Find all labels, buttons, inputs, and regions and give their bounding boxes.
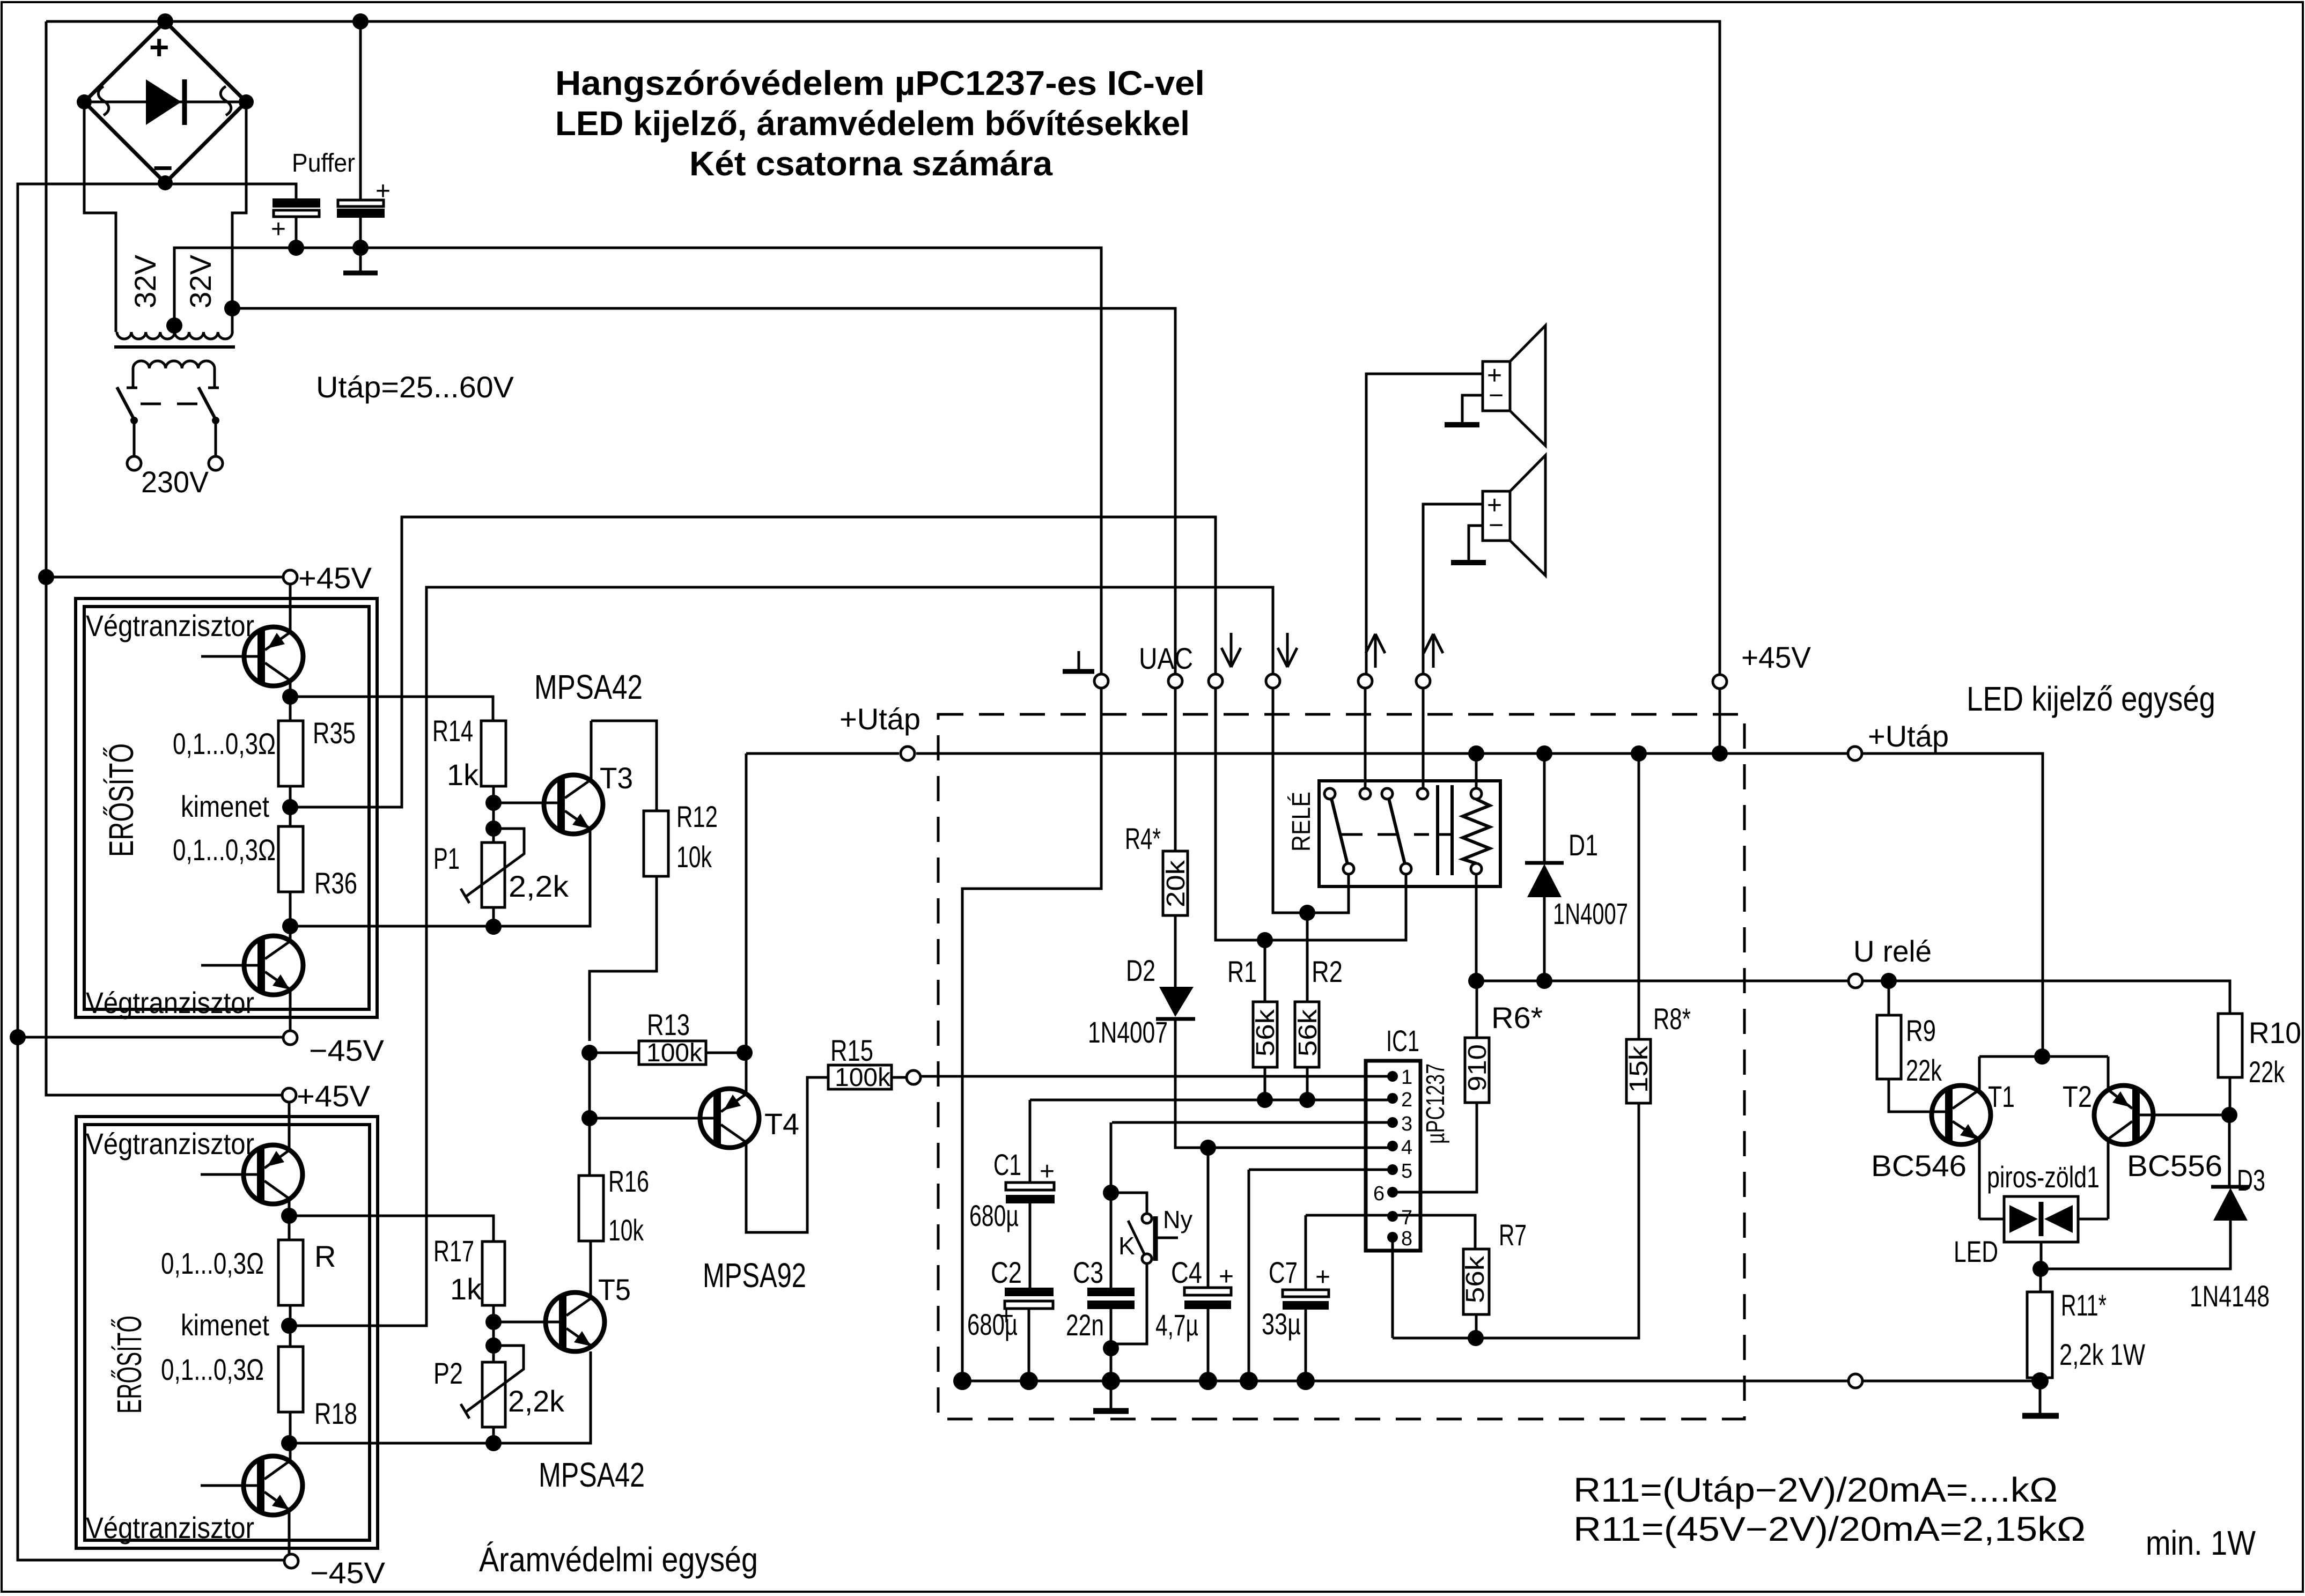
svg-text:R8*: R8* xyxy=(1653,1002,1691,1036)
svg-text:+Utáp: +Utáp xyxy=(1868,719,1949,753)
svg-text:D1: D1 xyxy=(1568,828,1598,862)
svg-text:R4*: R4* xyxy=(1125,822,1161,855)
svg-text:56k: 56k xyxy=(1294,1009,1322,1056)
node R2 bottom xyxy=(1299,1092,1315,1108)
node kimenet upper xyxy=(282,799,298,815)
svg-text:1k: 1k xyxy=(447,758,479,792)
wire spk2 terminal to relay xyxy=(1422,688,1425,789)
svg-text:56k: 56k xyxy=(1251,1009,1280,1056)
svg-text:R9: R9 xyxy=(1906,1014,1936,1047)
wire R36 to lower node xyxy=(289,892,292,941)
wire R18 to lower node xyxy=(289,1412,292,1461)
terminal out1 xyxy=(1209,674,1223,688)
wire R16 to T5 collector xyxy=(590,1241,592,1298)
node U rele D1 xyxy=(1536,973,1552,989)
wire R14 bottom / base T3 xyxy=(492,786,495,843)
resistor R13 xyxy=(590,1039,745,1067)
resistor R15 xyxy=(828,1063,907,1092)
svg-text:R36: R36 xyxy=(314,866,357,900)
bridge rectifier B1 xyxy=(77,21,254,190)
svg-text:4,7µ: 4,7µ xyxy=(1155,1308,1198,1342)
wire R to kimenet lower xyxy=(289,1305,292,1347)
wire R13 node down to T4 base xyxy=(588,1053,591,1176)
diode D1 xyxy=(1525,753,1564,981)
svg-text:8: 8 xyxy=(1401,1228,1412,1250)
svg-text:Puffer: Puffer xyxy=(292,149,355,178)
svg-text:R15: R15 xyxy=(830,1033,873,1067)
svg-text:100k: 100k xyxy=(646,1039,703,1067)
svg-text:R7: R7 xyxy=(1499,1218,1527,1252)
transistor Vegtranzisztor lower-bottom (NPN) xyxy=(201,1456,303,1515)
svg-text:T5: T5 xyxy=(598,1273,631,1306)
svg-text:R14: R14 xyxy=(432,714,473,748)
svg-text:0,1...0,3Ω: 0,1...0,3Ω xyxy=(161,1246,264,1280)
resistor R1 xyxy=(1251,940,1280,1100)
node R13 right xyxy=(737,1045,753,1061)
node utap D1 xyxy=(1536,745,1552,762)
pin2 wire xyxy=(1030,1099,1393,1102)
pin1 wire xyxy=(920,1075,1393,1078)
terminal +Utap left xyxy=(901,747,915,760)
svg-text:Végtranzisztor: Végtranzisztor xyxy=(86,609,254,642)
svg-text:7: 7 xyxy=(1401,1207,1412,1229)
terminal out2 xyxy=(1266,674,1280,688)
node rail C4 xyxy=(1199,1372,1217,1390)
transistor T3 xyxy=(544,775,603,834)
wire ground bus from caps xyxy=(174,248,1101,674)
diode D3 xyxy=(2041,1115,2250,1269)
wire +45V terminal to rail xyxy=(1719,689,1721,753)
resistor R (lower amp) xyxy=(278,1240,303,1305)
svg-text:R6*: R6* xyxy=(1491,1001,1543,1035)
wire left +45V feeder xyxy=(46,21,282,1095)
pin5 wire xyxy=(1249,1169,1393,1171)
pin3 wire xyxy=(1112,1121,1393,1124)
svg-text:100k: 100k xyxy=(835,1063,891,1092)
svg-text:Utáp=25...60V: Utáp=25...60V xyxy=(316,370,514,404)
svg-text:+: + xyxy=(1040,1157,1055,1186)
node emitter lower-top xyxy=(281,1208,297,1224)
svg-text:4: 4 xyxy=(1401,1136,1412,1159)
svg-text:P2: P2 xyxy=(433,1356,463,1390)
wire spk2 plus xyxy=(1423,504,1483,674)
resistor R36 xyxy=(278,826,303,892)
svg-text:ERŐSÍTŐ: ERŐSÍTŐ xyxy=(102,743,141,857)
svg-text:R10: R10 xyxy=(2249,1016,2301,1050)
resistor R6 xyxy=(1393,981,1492,1192)
pushbutton Ny/K xyxy=(1111,1193,1178,1344)
node +45V upper xyxy=(38,569,54,585)
svg-text:1k: 1k xyxy=(450,1272,482,1306)
node R11 gnd xyxy=(2031,1372,2049,1390)
wire upper emitter to R14 xyxy=(290,697,493,721)
capacitor C1 xyxy=(1006,1100,1055,1288)
node utap relay coil xyxy=(1468,745,1484,762)
resistor R9 xyxy=(1877,981,1945,1112)
svg-text:5: 5 xyxy=(1401,1160,1412,1183)
node R13 left xyxy=(581,1045,598,1061)
node switch top xyxy=(1103,1185,1119,1201)
trimmer P2 xyxy=(461,1346,524,1443)
node P2 wiper tap xyxy=(485,1338,502,1354)
node cap a gnd xyxy=(288,240,304,256)
svg-text:1N4007: 1N4007 xyxy=(1553,897,1628,930)
wire upper bottom rail to T3 emitter xyxy=(290,829,590,926)
svg-text:6: 6 xyxy=(1373,1183,1385,1205)
resistor R7 xyxy=(1306,1215,1490,1338)
node T4 base xyxy=(581,1110,598,1126)
transistor T2 (PNP BC556, mirrored) xyxy=(2094,1056,2229,1219)
node R7 bottom xyxy=(1468,1330,1484,1346)
node rail C1C2 xyxy=(953,1372,971,1390)
wire spk1 plus xyxy=(1366,374,1483,674)
svg-text:MPSA42: MPSA42 xyxy=(534,668,643,706)
arrow up 2 xyxy=(1424,634,1443,668)
IC1 uPC1237 xyxy=(1366,1024,1450,1251)
node emitter lower-bottom xyxy=(281,1435,297,1451)
ground right xyxy=(2039,1381,2042,1414)
resistor R17 xyxy=(482,1242,505,1305)
svg-text:32V: 32V xyxy=(128,254,162,308)
resistor R12 xyxy=(644,811,668,876)
switch mains pole1 xyxy=(117,387,141,470)
wire out2 to relay/R2 row xyxy=(1273,688,1349,913)
wire collector bus xyxy=(1979,1055,2108,1058)
svg-text:Áramvédelmi egység: Áramvédelmi egység xyxy=(479,1540,758,1579)
terminal spk2 xyxy=(1416,674,1430,688)
wire lower emitter to R17 xyxy=(289,1216,494,1242)
node T1T2 collector xyxy=(2034,1048,2050,1065)
wire R35 to kimenet xyxy=(289,786,292,826)
svg-text:1N4007: 1N4007 xyxy=(1088,1015,1168,1049)
svg-text:R35: R35 xyxy=(313,716,356,750)
resistor R10 xyxy=(2218,981,2242,1115)
svg-text:C1: C1 xyxy=(993,1148,1021,1181)
svg-text:0,1...0,3Ω: 0,1...0,3Ω xyxy=(173,727,276,760)
wire to -45V upper xyxy=(289,989,292,1031)
node R1 bottom xyxy=(1257,1092,1273,1108)
node P1 bottom xyxy=(485,919,502,935)
svg-text:LED: LED xyxy=(1954,1235,1998,1268)
svg-text:Végtranzisztor: Végtranzisztor xyxy=(86,1127,254,1161)
wire spk1 minus to gnd xyxy=(1462,395,1483,423)
wire bridge AC right to transformer xyxy=(232,102,246,332)
speaker SP2 xyxy=(1483,455,1545,575)
relay K1 xyxy=(1287,781,1500,886)
svg-text:LED kijelző, áramvédelem bővít: LED kijelző, áramvédelem bővítésekkel xyxy=(555,104,1190,143)
pin6 wire xyxy=(1393,1191,1477,1194)
wire gnd terminal down-left to rail xyxy=(962,688,1101,1381)
terminal gnd xyxy=(1094,674,1108,688)
svg-text:MPSA42: MPSA42 xyxy=(539,1455,645,1494)
terminal UAC xyxy=(1168,674,1182,688)
svg-text:U relé: U relé xyxy=(1853,934,1932,968)
wire spk1 terminal to relay xyxy=(1364,688,1367,789)
wire upper kimenet to out1 xyxy=(290,517,1216,807)
transistor T1 (NPN BC546) xyxy=(1932,1056,1991,1219)
amp box upper xyxy=(76,598,377,1017)
node kimenet lower xyxy=(281,1318,297,1334)
resistor R16 xyxy=(579,1176,603,1241)
node U rele R9 xyxy=(1881,973,1897,989)
transistor T4 (PNP) xyxy=(700,1089,759,1148)
svg-text:−: − xyxy=(1489,511,1504,540)
resistor R4 xyxy=(1162,688,1190,987)
node R14-T3 base xyxy=(485,795,502,811)
svg-text:3: 3 xyxy=(1401,1113,1412,1135)
wire +45V to Q-upper-top xyxy=(289,584,292,632)
svg-text:P1: P1 xyxy=(433,841,460,875)
svg-text:LED kijelző egység: LED kijelző egység xyxy=(1967,679,2215,718)
svg-text:UAC: UAC xyxy=(1139,641,1193,675)
svg-text:−45V: −45V xyxy=(310,1556,386,1590)
resistor R18 xyxy=(278,1347,303,1412)
ground rail bottom xyxy=(962,1380,2040,1383)
svg-text:+45V: +45V xyxy=(1741,640,1811,674)
capacitor Puffer C-a xyxy=(271,198,320,248)
svg-text:+: + xyxy=(375,177,391,205)
svg-text:min. 1W: min. 1W xyxy=(2146,1524,2256,1562)
svg-text:R18: R18 xyxy=(314,1396,357,1430)
svg-text:20k: 20k xyxy=(1162,860,1190,907)
svg-text:Végtranzisztor: Végtranzisztor xyxy=(86,986,254,1019)
svg-text:−45V: −45V xyxy=(309,1033,385,1067)
svg-text:ERŐSÍTŐ: ERŐSÍTŐ xyxy=(110,1316,149,1414)
node rail C3 xyxy=(1102,1372,1120,1390)
svg-text:15k: 15k xyxy=(1625,1045,1653,1093)
svg-text:R12: R12 xyxy=(676,800,718,833)
node transformer right xyxy=(224,300,240,316)
svg-text:kimenet: kimenet xyxy=(181,1308,269,1342)
node rail pin5 xyxy=(1240,1372,1258,1390)
svg-text:680µ: 680µ xyxy=(969,1199,1019,1232)
svg-text:C4: C4 xyxy=(1171,1255,1202,1289)
wire T4 collector up to +Utap xyxy=(745,753,748,1094)
svg-text:T1: T1 xyxy=(1988,1080,2015,1113)
svg-text:+45V: +45V xyxy=(298,561,372,595)
resistor R35 xyxy=(278,721,303,786)
terminal -45V upper xyxy=(283,1031,297,1045)
svg-text:680µ: 680µ xyxy=(967,1307,1018,1341)
pin7 wire (to C7) xyxy=(1305,1215,1307,1290)
node R1 top xyxy=(1257,932,1273,948)
transformer TR secondary xyxy=(117,317,232,339)
svg-text:32V: 32V xyxy=(183,254,217,308)
svg-text:33µ: 33µ xyxy=(1262,1307,1301,1341)
pin8 wire xyxy=(1391,1237,1394,1338)
svg-text:0,1...0,3Ω: 0,1...0,3Ω xyxy=(173,833,276,867)
svg-text:Hangszóróvédelem µPC1237-es IC: Hangszóróvédelem µPC1237-es IC-vel xyxy=(555,64,1205,102)
wire relay coil to +Utap xyxy=(1475,753,1478,788)
wire to upper amp -45V xyxy=(18,1036,283,1039)
node utap R8 xyxy=(1631,745,1647,762)
svg-text:+: + xyxy=(271,215,286,243)
node T2 base / R10 xyxy=(2221,1107,2237,1123)
wire emitter node lower xyxy=(288,1199,291,1240)
resistor R2 xyxy=(1294,913,1322,1100)
svg-text:µPC1237: µPC1237 xyxy=(1422,1063,1450,1144)
node rail C7 xyxy=(1297,1372,1315,1390)
svg-text:Ny: Ny xyxy=(1163,1206,1192,1233)
svg-text:R16: R16 xyxy=(608,1164,649,1198)
transformer core xyxy=(114,345,235,349)
svg-text:RELÉ: RELÉ xyxy=(1287,792,1316,852)
wire R17 bottom / base T5 xyxy=(492,1305,495,1362)
svg-text:2: 2 xyxy=(1401,1089,1412,1111)
terminal +45V lower xyxy=(282,1088,296,1102)
wire emitter node upper xyxy=(289,681,292,721)
arrow down 2 xyxy=(1278,633,1297,667)
node top rail cap2 xyxy=(352,13,369,29)
ground symbol in box xyxy=(1110,1381,1113,1409)
transistor Vegtranzisztor upper-top (PNP) xyxy=(201,627,303,686)
wire to -45V lower xyxy=(288,1510,291,1554)
amp box lower xyxy=(76,1117,378,1548)
node R2 top xyxy=(1299,905,1315,921)
terminal gnd right xyxy=(1849,1374,1862,1388)
svg-text:0,1...0,3Ω: 0,1...0,3Ω xyxy=(161,1353,264,1386)
wire to upper amp +45V xyxy=(46,576,283,579)
svg-text:R11*: R11* xyxy=(2061,1288,2107,1322)
capacitor C2 xyxy=(999,1288,1054,1381)
ground spk1 xyxy=(1445,422,1479,427)
svg-text:+45V: +45V xyxy=(297,1079,371,1113)
svg-text:T3: T3 xyxy=(600,761,633,795)
svg-text:T2: T2 xyxy=(2063,1080,2092,1113)
svg-text:R13: R13 xyxy=(647,1008,690,1041)
svg-text:2,2k: 2,2k xyxy=(508,1384,565,1418)
svg-text:D2: D2 xyxy=(1126,954,1155,987)
wire UAC sense from transformer xyxy=(232,308,1175,674)
svg-text:22k: 22k xyxy=(2249,1055,2285,1089)
svg-text:R2: R2 xyxy=(1312,955,1343,988)
transistor T5 xyxy=(546,1292,605,1351)
node C4 top xyxy=(1200,1140,1216,1156)
svg-text:10k: 10k xyxy=(608,1213,644,1247)
wire out1 to relay/R1 row xyxy=(1216,688,1406,940)
svg-text:+: + xyxy=(1315,1263,1330,1291)
ground terminal symbol xyxy=(1063,651,1094,671)
svg-text:1N4148: 1N4148 xyxy=(2190,1279,2270,1313)
svg-text:56k: 56k xyxy=(1461,1255,1490,1303)
svg-text:R11=(45V−2V)/20mA=2,15kΩ: R11=(45V−2V)/20mA=2,15kΩ xyxy=(1573,1510,2086,1548)
transistor Vegtranzisztor upper-bottom (NPN) xyxy=(201,936,303,995)
capacitor C7 xyxy=(1283,1263,1330,1381)
svg-text:R: R xyxy=(314,1239,336,1273)
terminal -45V lower xyxy=(284,1554,298,1568)
svg-text:−: − xyxy=(1489,381,1504,410)
svg-text:MPSA92: MPSA92 xyxy=(703,1256,806,1295)
node U rele coil xyxy=(1468,973,1484,989)
svg-text:R17: R17 xyxy=(433,1234,474,1268)
terminal U rele xyxy=(1849,974,1862,988)
svg-text:10k: 10k xyxy=(676,840,712,874)
svg-text:D3: D3 xyxy=(2237,1163,2265,1197)
node top rail bridge xyxy=(157,13,173,29)
svg-text:C3: C3 xyxy=(1073,1255,1103,1289)
wire top +45V rail xyxy=(46,21,1720,675)
dashed protection box xyxy=(938,714,1744,1419)
node -45V upper xyxy=(10,1029,26,1045)
wire +45V to Q-lower-top xyxy=(288,1102,291,1150)
terminal +45V right xyxy=(1713,675,1727,689)
svg-text:+: + xyxy=(149,28,169,66)
svg-text:1: 1 xyxy=(1401,1066,1412,1089)
node P2 bottom xyxy=(485,1435,502,1451)
svg-text:BC546: BC546 xyxy=(1871,1149,1967,1183)
title text xyxy=(555,64,1205,183)
node cap b gnd xyxy=(352,240,369,256)
wire lower kimenet to out2 xyxy=(289,587,1273,1326)
wire bridge AC left to transformer xyxy=(84,102,116,332)
ground at cap b xyxy=(359,248,362,271)
node utap +45V xyxy=(1712,745,1728,762)
node emitter upper-bottom xyxy=(282,918,298,934)
svg-text:Két csatorna számára: Két csatorna számára xyxy=(689,144,1052,183)
svg-text:K: K xyxy=(1118,1232,1135,1260)
capacitor C4 xyxy=(1184,1148,1234,1381)
resistor R11 xyxy=(2027,1269,2052,1381)
wire relay coil to U rele rail xyxy=(1475,874,1478,981)
svg-text:R1: R1 xyxy=(1227,955,1257,988)
wire T3 collector to R14 top rail xyxy=(591,721,657,811)
svg-text:910: 910 xyxy=(1463,1044,1492,1091)
svg-text:BC556: BC556 xyxy=(2127,1149,2222,1183)
arrow up 1 xyxy=(1366,634,1385,668)
capacitor C3 xyxy=(1087,1122,1135,1381)
svg-text:+: + xyxy=(1219,1262,1234,1291)
terminal spk1 xyxy=(1358,674,1372,688)
node R17-T5 base xyxy=(485,1314,502,1330)
trimmer P1 xyxy=(461,829,524,927)
arrow down 1 xyxy=(1221,633,1241,667)
svg-text:IC1: IC1 xyxy=(1386,1024,1419,1058)
terminal +45V upper xyxy=(283,570,297,584)
svg-text:T4: T4 xyxy=(764,1107,799,1141)
node emitter upper-top xyxy=(282,689,298,705)
transistor Vegtranzisztor lower-top (PNP) xyxy=(201,1145,303,1204)
svg-text:C2: C2 xyxy=(991,1255,1022,1289)
capacitor Puffer C-b xyxy=(337,21,391,248)
wire lower bottom rail to T5 emitter xyxy=(289,1351,591,1443)
svg-text:22n: 22n xyxy=(1066,1308,1104,1342)
svg-text:piros-zöld1: piros-zöld1 xyxy=(1987,1160,2100,1194)
node LED bottom xyxy=(2032,1261,2049,1277)
wire bridge minus rail xyxy=(18,184,296,1560)
node switch bottom xyxy=(1103,1340,1119,1356)
wire +Utap rail xyxy=(746,753,2043,1056)
svg-text:+Utáp: +Utáp xyxy=(839,702,920,736)
svg-text:2,2k 1W: 2,2k 1W xyxy=(2059,1338,2145,1371)
wire U rele rail xyxy=(1476,981,2230,1014)
svg-text:kimenet: kimenet xyxy=(181,789,269,823)
diode D2 xyxy=(1156,987,1393,1148)
wire spk2 minus to gnd xyxy=(1469,526,1483,560)
svg-text:C7: C7 xyxy=(1269,1255,1298,1289)
speaker SP1 xyxy=(1483,326,1545,446)
switch mains pole2 xyxy=(198,387,223,470)
resistor R8 xyxy=(1393,753,1653,1338)
svg-text:Végtranzisztor: Végtranzisztor xyxy=(86,1511,254,1545)
svg-text:R11=(Utáp−2V)/20mA=....kΩ: R11=(Utáp−2V)/20mA=....kΩ xyxy=(1573,1471,2058,1509)
LED piros-zold1 xyxy=(1979,1196,2108,1269)
wire T4 emitter to R15 xyxy=(746,1077,828,1232)
transformer TR primary xyxy=(127,361,219,388)
svg-text:2,2k: 2,2k xyxy=(509,869,569,903)
ground spk2 xyxy=(1451,560,1486,565)
terminal R15 out xyxy=(907,1070,920,1084)
terminal +Utap right xyxy=(1848,747,1862,760)
